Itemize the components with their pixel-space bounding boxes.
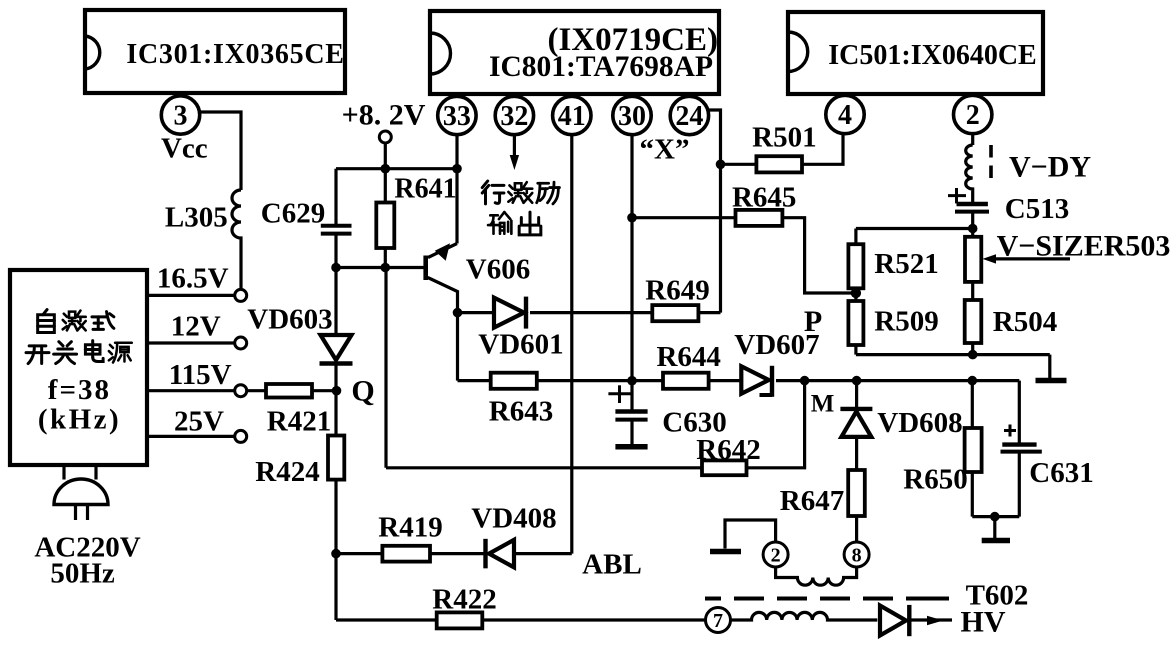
svg-text:R501: R501 [752,122,816,154]
op-amp U3 IC501 block [788,12,1043,94]
node junction rail-R641 [381,164,391,174]
terminal 25V [147,406,247,443]
svg-text:IC801:TA7698AP: IC801:TA7698AP [489,51,713,83]
svg-text:R509: R509 [874,306,938,338]
svg-text:115V: 115V [169,359,232,391]
diode VD408 [471,503,571,569]
svg-text:R521: R521 [874,248,938,280]
inductor V-DY winding [966,134,1092,202]
AC plug symbol [54,465,108,520]
transistor V606 [426,135,531,381]
svg-text:IC301:IX0365CE: IC301:IX0365CE [126,39,344,70]
svg-text:(kHz): (kHz) [38,404,121,436]
pin 8 of T602 [844,542,869,567]
svg-text:16.5V: 16.5V [157,262,229,294]
wire pin32 drive output arrow [510,135,519,170]
svg-text:R645: R645 [732,182,796,214]
svg-text:R422: R422 [432,584,496,616]
wire top rail to R521 [856,227,973,230]
svg-text:Q: Q [351,375,374,408]
svg-text:C513: C513 [1005,193,1069,225]
svg-text:R644: R644 [656,341,720,373]
svg-text:VD603: VD603 [247,304,332,336]
node Q [332,375,375,408]
pin 2 of IC501 [954,95,992,133]
svg-text:R650: R650 [903,463,967,495]
inductor L305 [165,190,241,289]
svg-text:12V: 12V [171,311,221,343]
node junction ground C631 [990,512,1000,522]
node M label [811,391,835,418]
svg-text:VD607: VD607 [734,329,819,361]
svg-text:8: 8 [852,545,862,567]
svg-text:IC501:IX0640CE: IC501:IX0640CE [828,40,1036,71]
node junction VD608 [852,376,862,386]
wire +8.2V rail [336,167,457,170]
svg-text:ABL: ABL [582,549,642,581]
resistor R650 [903,381,981,517]
svg-text:R424: R424 [255,456,319,488]
diode HV rectifier [880,605,952,636]
svg-text:2: 2 [966,100,980,131]
op-amp U2 IC801 block [430,11,719,94]
wire box to 16.5V terminal [147,294,235,297]
capacitor C630 (electrolytic) [608,381,726,444]
resistor R421 [247,384,337,438]
resistor R649 [645,274,720,321]
node junction R642 riser [800,376,810,386]
diode VD601 [458,297,653,361]
resistor R422 [336,584,706,629]
node junction R641 bottom [381,263,391,273]
resistor R424 [255,391,344,554]
svg-text:VD608: VD608 [877,407,962,439]
pin 2 of T602 [763,542,788,567]
node junction C629 bottom [331,263,341,273]
svg-text:V−DY: V−DY [1009,150,1091,183]
svg-text:f=38: f=38 [48,374,111,406]
node junction C513 bottom [968,224,978,234]
wire down to HV line [334,554,337,620]
wire pin41 vertical (ABL) [570,135,573,554]
resistor R645 [632,182,856,293]
terminal 12V [147,311,247,349]
resistor R509 [848,301,938,355]
svg-text:3: 3 [174,101,188,132]
node ABL label [582,549,642,581]
ground for T602 pin2 [710,549,741,555]
node Vcc label [161,133,208,165]
resistor R643 [458,373,633,428]
svg-text:7: 7 [713,610,723,632]
capacitor C629 [261,169,352,268]
resistor R641 [376,169,456,268]
svg-text:R641: R641 [394,174,456,205]
resistor R642 [386,381,805,476]
wire riser to R642 line [384,268,387,468]
svg-text:R642: R642 [696,434,760,466]
node junction C630 [627,376,637,386]
svg-text:4: 4 [838,100,852,131]
svg-text:C631: C631 [1029,457,1093,489]
svg-text:50Hz: 50Hz [50,558,115,590]
label T602 [966,579,1029,611]
pin 3 of IC301 [161,96,199,134]
node P label [804,305,822,338]
diode VD607 [734,329,1019,397]
svg-text:R504: R504 [993,306,1057,338]
pin 24 of IC801 [670,96,708,134]
svg-text:C629: C629 [261,198,325,230]
terminal 16.5V [157,262,247,301]
resistor R419 [336,512,484,562]
svg-text:HV: HV [961,606,1006,639]
wire pin30 vertical [630,135,633,381]
pin 32 of IC801 [495,96,533,134]
wire T602 pin2 to ground [725,520,776,549]
ground for R650 C631 [982,517,1010,541]
node X label [640,133,690,165]
pin 4 of IC501 [826,95,864,133]
svg-text:R649: R649 [645,274,709,306]
wire pin24 riser [707,110,721,313]
transformer T602 core (dashed) [705,597,958,601]
wire pin3 to L305 [200,112,242,190]
resistor R521 [848,229,938,302]
svg-text:R419: R419 [378,512,442,544]
svg-text:32: 32 [500,101,528,132]
winding T602 primary [776,567,857,586]
svg-text:24: 24 [675,101,703,132]
node junction R650 [968,376,978,386]
svg-text:25V: 25V [174,406,224,438]
capacitor C513 [948,188,1069,229]
svg-text:2: 2 [771,545,781,567]
svg-text:M: M [811,391,835,418]
ground for R509 R504 [1036,355,1067,381]
node junction pin24-R501 [716,160,726,170]
terminal 115V [147,359,247,397]
svg-text:V606: V606 [466,253,530,285]
svg-text:41: 41 [558,101,586,132]
ground for C630 [615,444,647,450]
svg-text:+8. 2V: +8. 2V [342,99,426,132]
pin 33 of IC801 [438,96,476,134]
wire base rail [336,266,424,269]
diode VD608 [840,381,962,470]
label AC220V 50Hz [34,532,140,590]
label HV [961,606,1006,639]
resistor R644 [632,341,741,389]
svg-text:33: 33 [443,101,471,132]
potentiometer V-SIZER503 [965,229,1170,301]
svg-text:L305: L305 [165,201,228,233]
op-amp U1 IC301 block [85,10,345,93]
node junction P wiper [851,288,861,298]
pin 7 of T602 [706,608,731,633]
resistor R647 [780,470,865,543]
node junction rail-pin33 [452,164,462,174]
wire bottom rail R509/R504 [856,353,1050,356]
svg-text:R647: R647 [780,485,844,517]
svg-text:R643: R643 [489,396,553,428]
svg-text:VD601: VD601 [478,329,563,361]
diode VD603 [247,268,352,391]
wire bottom of R650 C631 [972,515,1019,518]
winding T602 HV secondary [730,612,877,620]
svg-text:Vcc: Vcc [161,133,208,165]
svg-text:R421: R421 [267,406,331,438]
svg-text:30: 30 [618,101,646,132]
label line drive output (Chinese) [482,181,559,235]
pin 30 of IC801 [613,96,651,134]
capacitor C631 (electrolytic) [1001,381,1094,517]
resistor R504 [965,300,1058,355]
pin 41 of IC801 [553,96,591,134]
svg-text:VD408: VD408 [471,503,556,535]
node junction collector-VD601 [453,308,463,318]
node junction pin30-R645 [627,213,637,223]
node junction R504 bottom [968,350,978,360]
node junction ABL line [331,549,341,559]
terminal +8.2V [342,99,426,169]
svg-text:“X”: “X” [640,133,690,165]
power supply block (self-excited switching supply) [10,270,147,465]
resistor R501 [721,122,844,173]
